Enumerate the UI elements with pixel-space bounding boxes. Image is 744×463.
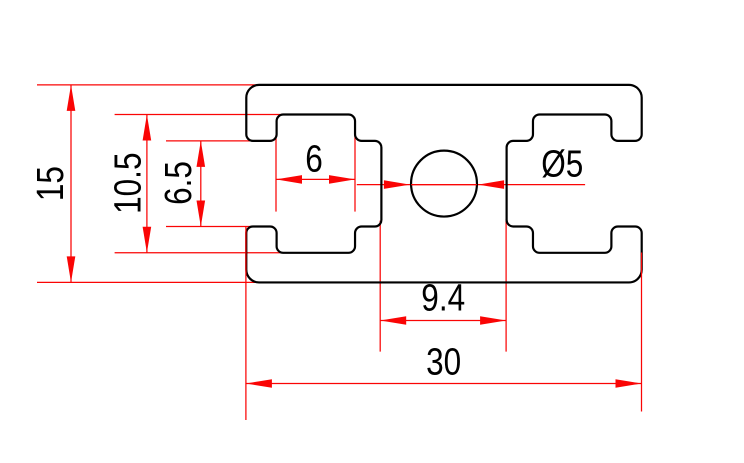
center hole circle Ø5	[411, 151, 477, 217]
dim 6 arrow right	[329, 175, 355, 184]
dim 9.4 arrow left	[380, 316, 406, 325]
dim 15 dimension line	[70, 85, 72, 283]
dim 30 extension line right	[641, 253, 643, 412]
dim 6.5 extension line bottom	[166, 226, 273, 228]
dim 9.4 dimension line	[380, 320, 506, 322]
svg-text:10.5: 10.5	[107, 153, 149, 214]
dim 15 extension line bottom	[37, 281, 260, 283]
dim 15 arrow up	[67, 85, 76, 111]
dim 30 arrow right	[616, 379, 642, 388]
dim Ø5 arrow right (to left side of hole)	[384, 180, 410, 189]
dim 30 arrow left	[246, 379, 272, 388]
dim 10.5 dimension line	[146, 115, 148, 253]
dim 9.4 extension line left	[379, 221, 381, 352]
dim 6.5 arrow up	[197, 141, 206, 167]
dim 10.5 extension line bottom	[115, 252, 349, 254]
dim 6 extension line right	[354, 135, 356, 212]
dim 9.4 extension line right	[505, 219, 507, 352]
dim Ø5 leader line	[357, 184, 585, 186]
dim 6.5 dimension line	[200, 141, 202, 227]
dim 10.5 arrow up	[143, 115, 152, 141]
dim 6 extension line left	[275, 135, 277, 212]
svg-text:30: 30	[426, 341, 461, 383]
dim Ø5 line across hole	[411, 184, 477, 186]
dim 10.5 extension line top	[115, 114, 349, 116]
dim 30 dimension line	[246, 383, 642, 385]
profile outline (30x15 T-slot extrusion cross-section)	[246, 85, 641, 283]
dim 6.5 arrow down	[197, 201, 206, 227]
dim 9.4 arrow right	[480, 316, 506, 325]
dim 6.5 extension line top	[166, 140, 273, 142]
dim 6 arrow left	[276, 175, 302, 184]
svg-text:6: 6	[305, 138, 323, 180]
dim 15 arrow down	[67, 256, 76, 282]
svg-text:15: 15	[29, 166, 71, 201]
svg-text:Ø5: Ø5	[541, 143, 583, 185]
dim 6 dimension line	[276, 178, 355, 180]
svg-text:6.5: 6.5	[157, 161, 199, 205]
dim 30 extension line left	[245, 226, 247, 420]
dim 15 extension line top	[37, 84, 260, 86]
dim Ø5 arrow left (to right side of hole)	[478, 180, 504, 189]
dim 10.5 arrow down	[143, 227, 152, 253]
